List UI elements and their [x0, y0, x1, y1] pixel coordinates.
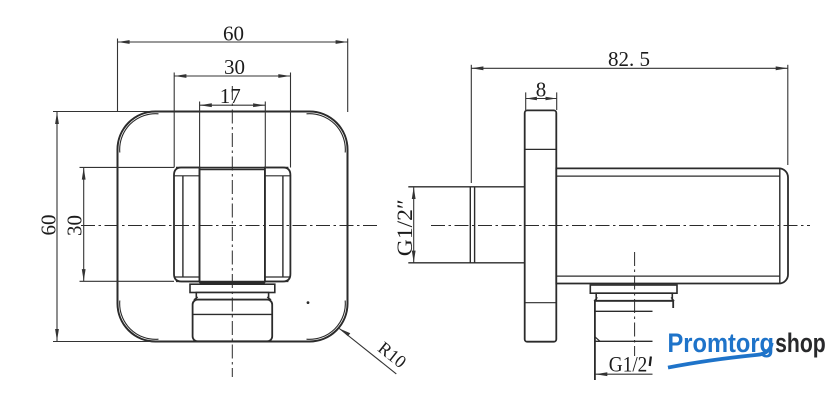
wall flange plate (side)	[525, 110, 557, 341]
left ear tab of square body	[174, 168, 200, 282]
outlet cylinder left edge	[594, 301, 596, 380]
horizontal centerline right view	[431, 225, 810, 227]
outlet collar (side)	[590, 285, 677, 293]
svg-text:30: 30	[63, 215, 87, 236]
right tab chamfer bottom line	[265, 276, 291, 278]
outlet thread chamfer notch	[595, 337, 600, 342]
body inner top line	[556, 175, 780, 177]
G1/2 inlet dimension line	[413, 187, 415, 263]
outlet vertical centerline	[634, 252, 636, 356]
inner corner arc bottom-left	[120, 301, 159, 340]
outlet thread line 2	[595, 340, 653, 342]
svg-text:82. 5: 82. 5	[608, 47, 650, 71]
svg-text:shop: shop	[775, 328, 826, 358]
dimension 82.5 top	[471, 65, 788, 183]
logo swoosh	[668, 343, 772, 368]
svg-text:30: 30	[224, 55, 245, 79]
neck flare left	[194, 297, 198, 300]
dimension 60 top	[118, 39, 348, 113]
central body top edge	[200, 168, 265, 170]
outlet neck (side)	[596, 293, 672, 301]
outlet neck (front view)	[196, 293, 268, 300]
neck flare right	[267, 297, 271, 300]
dimension 17 top	[200, 102, 266, 170]
right tab inner vertical edge	[282, 176, 284, 277]
svg-text:8: 8	[536, 77, 547, 101]
outlet neck flare left (side)	[594, 298, 598, 301]
dimension 30 top	[174, 73, 290, 168]
inlet pipe end cap inner	[474, 187, 476, 263]
left tab chamfer top line	[174, 175, 200, 177]
inner corner arc top-right	[307, 114, 346, 153]
main body (side)	[556, 168, 788, 283]
svg-text:60: 60	[37, 215, 61, 236]
G1/2 outlet dimension arrow	[595, 373, 652, 375]
outlet cylinder ring line	[193, 313, 273, 315]
plate tab bottom edge line across	[176, 280, 288, 282]
svg-text:60: 60	[223, 21, 244, 45]
outlet thread line 1	[595, 310, 653, 312]
inlet pipe end cap outer	[469, 187, 471, 263]
dimension 30 left (vertical)	[80, 167, 175, 281]
logo white backdrop	[653, 309, 838, 392]
outlet neck flare right (side)	[671, 298, 674, 301]
outlet cylinder top edge	[595, 300, 673, 302]
central body right edge	[264, 169, 266, 281]
svg-text:R10: R10	[374, 338, 410, 372]
R10 leader line	[339, 329, 396, 374]
dimension 8 (flange thickness)	[526, 92, 557, 110]
outer rounded square plate 60x60	[118, 112, 348, 342]
inner corner arc bottom-right	[307, 301, 346, 340]
outlet collar (front view)	[190, 284, 275, 292]
inlet pipe top edge	[408, 186, 524, 188]
plate tab top edge line across	[176, 167, 288, 169]
svg-text:G1/2: G1/2	[609, 351, 648, 376]
svg-text:17: 17	[220, 84, 241, 108]
dimension 60 left (vertical)	[53, 112, 160, 342]
flange corner line top	[525, 148, 557, 150]
stray dot	[307, 301, 310, 304]
central body left edge	[199, 169, 201, 281]
inner corner arc top-left	[120, 114, 159, 153]
inlet pipe bottom edge	[408, 262, 524, 264]
right ear tab of square body	[265, 168, 291, 282]
body end cap line	[779, 169, 781, 283]
horizontal centerline	[81, 225, 380, 227]
flange corner line bottom	[525, 302, 557, 304]
central body bottom thick band	[198, 281, 266, 284]
body inner bottom line	[556, 275, 780, 277]
vertical centerline	[231, 86, 233, 377]
left tab chamfer bottom line	[174, 276, 200, 278]
outlet cylinder (front view)	[193, 300, 273, 342]
svg-text:G1/2″: G1/2″	[392, 199, 417, 256]
clipped quote tick of outlet G1/2	[650, 357, 651, 367]
outlet cylinder right edge (partly hidden by logo)	[672, 301, 674, 308]
right tab chamfer top line	[265, 175, 291, 177]
left tab inner vertical edge	[182, 176, 184, 277]
